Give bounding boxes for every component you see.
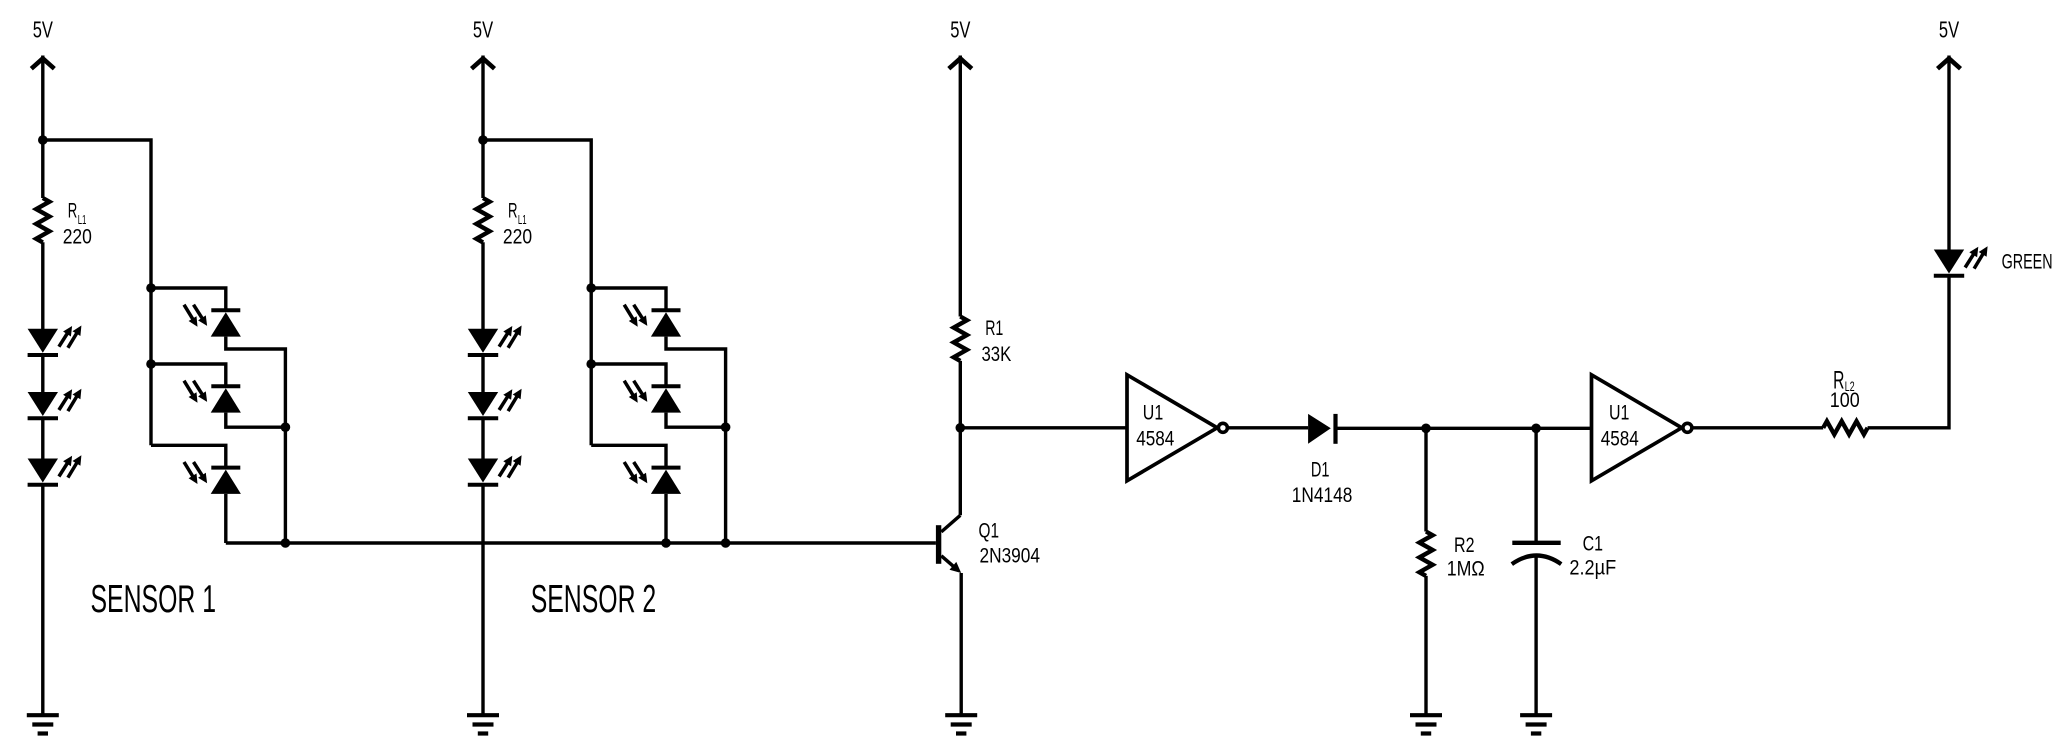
LED 3 sensor 2	[468, 455, 522, 485]
wire PD2 to junction sensor 1	[226, 413, 286, 428]
svg-text:R: R	[508, 200, 518, 223]
wire tap1 to PD1 sensor 2	[591, 288, 666, 310]
wire tap3 to PD3 sensor 1	[151, 445, 226, 467]
svg-text:R: R	[68, 200, 78, 223]
wire RL1 to LED chain sensor 1	[41, 242, 44, 330]
wire LED GREEN to 5V	[1947, 56, 1950, 250]
ground C1	[1520, 715, 1552, 733]
diode D1 1N4148	[1292, 414, 1353, 507]
node PD2 junction sensor 1	[281, 422, 291, 432]
svg-text:1N4148: 1N4148	[1292, 484, 1353, 507]
svg-text:D1: D1	[1311, 459, 1330, 482]
power 5V (GREEN LED)	[1938, 17, 1961, 69]
resistor R1 33K	[954, 317, 1012, 367]
wire PD3 to bus sensor 1	[224, 494, 227, 543]
wire LED3 to ground sensor 2	[481, 485, 484, 715]
svg-text:Q1: Q1	[979, 520, 1000, 543]
node sensor 2 top junction	[478, 135, 488, 145]
ground sensor 2 LED chain	[467, 715, 499, 733]
photodiode PD1 sensor 1	[184, 305, 241, 337]
wire LED2-LED3 sensor 2	[481, 418, 484, 460]
wire node C to R2	[1424, 428, 1427, 531]
svg-text:4584: 4584	[1601, 427, 1639, 450]
node D (C1 tap)	[1531, 424, 1541, 434]
wire PD1 to right rail sensor 1	[226, 337, 286, 543]
svg-text:4584: 4584	[1136, 428, 1174, 451]
photodiode PD3 sensor 1	[184, 462, 241, 494]
node B (R1/collector/inverter input)	[956, 423, 966, 433]
svg-text:C1: C1	[1583, 533, 1603, 556]
svg-text:U1: U1	[1609, 402, 1629, 425]
wire LED2-LED3 sensor 1	[41, 418, 44, 460]
wire C1 to ground	[1534, 558, 1537, 716]
node tap2 sensor 2	[586, 359, 596, 369]
wire RL1 to LED chain sensor 2	[481, 242, 484, 330]
wire 5V rail sensor 2	[481, 56, 484, 199]
svg-text:1MΩ: 1MΩ	[1447, 557, 1485, 580]
wire U1b output to RL2	[1693, 426, 1823, 429]
svg-text:5V: 5V	[1939, 17, 1960, 43]
wire tap3 to PD3 sensor 2	[591, 445, 666, 467]
inverter U1b 4584	[1592, 375, 1692, 481]
wire PD2 to junction sensor 2	[666, 413, 726, 428]
wire 5V rail sensor 1	[41, 56, 44, 199]
transistor Q1 2N3904	[936, 515, 1040, 573]
LED 1 sensor 2	[468, 326, 522, 356]
node PD2 junction sensor 2	[721, 422, 731, 432]
ground sensor 1 LED chain	[27, 715, 59, 733]
wire node B to U1a input	[960, 426, 1127, 429]
wire LED3 to ground sensor 1	[41, 485, 44, 715]
svg-text:220: 220	[503, 226, 532, 249]
power 5V (sensor 2)	[472, 17, 495, 69]
LED 2 sensor 1	[28, 389, 82, 419]
svg-text:5V: 5V	[950, 17, 971, 43]
photodiode PD2 sensor 2	[624, 381, 681, 413]
node sensor 1 top junction	[38, 135, 48, 145]
wire PD3 to bus sensor 2	[664, 494, 667, 543]
svg-text:2N3904: 2N3904	[980, 545, 1041, 568]
photodiode PD2 sensor 1	[184, 381, 241, 413]
LED 3 sensor 1	[28, 455, 82, 485]
photodiode PD1 sensor 2	[624, 305, 681, 337]
svg-text:GREEN: GREEN	[2002, 250, 2053, 273]
node tap1 sensor 1	[146, 283, 156, 293]
wire LED1-LED2 sensor 1	[41, 355, 44, 394]
wire node to photodiode rail sensor 1	[43, 140, 151, 445]
LED 1 sensor 1	[28, 326, 82, 356]
inverter U1a 4584	[1127, 375, 1227, 481]
svg-text:R1: R1	[985, 317, 1003, 340]
LED GREEN	[1934, 246, 1988, 275]
wire sensor bus to Q1 base	[226, 541, 936, 544]
svg-text:5V: 5V	[473, 17, 494, 43]
svg-text:U1: U1	[1143, 402, 1163, 425]
ground R2	[1410, 715, 1442, 733]
wire 5V to R1	[959, 56, 962, 317]
svg-text:5V: 5V	[33, 17, 54, 43]
wire tap2 to PD2 sensor 1	[151, 364, 226, 386]
node right rail to bus sensor 1	[281, 538, 291, 548]
node C (R2 tap)	[1421, 424, 1431, 434]
resistor RL2 100	[1823, 367, 1867, 435]
ground Q1 emitter	[945, 715, 977, 733]
wire node B to Q1 collector	[959, 428, 962, 516]
svg-text:33K: 33K	[982, 343, 1012, 366]
svg-text:SENSOR 2: SENSOR 2	[531, 578, 657, 621]
resistor RL1 220 (sensor 2)	[476, 198, 532, 249]
node tap1 sensor 2	[586, 283, 596, 293]
resistor RL1 220 (sensor 1)	[36, 198, 92, 249]
capacitor C1 2.2uF	[1512, 533, 1616, 580]
node tap2 sensor 1	[146, 359, 156, 369]
power 5V (R1/Q1)	[949, 17, 972, 69]
photodiode PD3 sensor 2	[624, 462, 681, 494]
LED 2 sensor 2	[468, 389, 522, 419]
power 5V (sensor 1)	[31, 17, 54, 69]
wire tap2 to PD2 sensor 2	[591, 364, 666, 386]
svg-text:SENSOR 1: SENSOR 1	[91, 578, 217, 621]
wire R2 to ground	[1424, 576, 1427, 715]
wire D1 to U1b input	[1336, 427, 1592, 430]
wire Q1 emitter to ground	[960, 573, 963, 715]
svg-text:100: 100	[1830, 389, 1860, 412]
wire RL2 to LED GREEN	[1868, 276, 1949, 428]
resistor R2 1M	[1419, 532, 1484, 581]
wire R1 to node B	[959, 361, 962, 428]
wire node to photodiode rail sensor 2	[483, 140, 591, 445]
svg-text:2.2µF: 2.2µF	[1569, 557, 1616, 580]
node right rail to bus sensor 2	[721, 538, 731, 548]
node PD3 sensor 2 on bus	[661, 538, 671, 548]
wire node D to C1	[1534, 428, 1537, 543]
wire PD1 to right rail sensor 2	[666, 337, 726, 543]
svg-text:220: 220	[63, 226, 92, 249]
svg-text:R2: R2	[1454, 534, 1475, 557]
wire LED1-LED2 sensor 2	[481, 355, 484, 394]
wire tap1 to PD1 sensor 1	[151, 288, 226, 310]
wire U1a output to D1	[1229, 426, 1309, 429]
